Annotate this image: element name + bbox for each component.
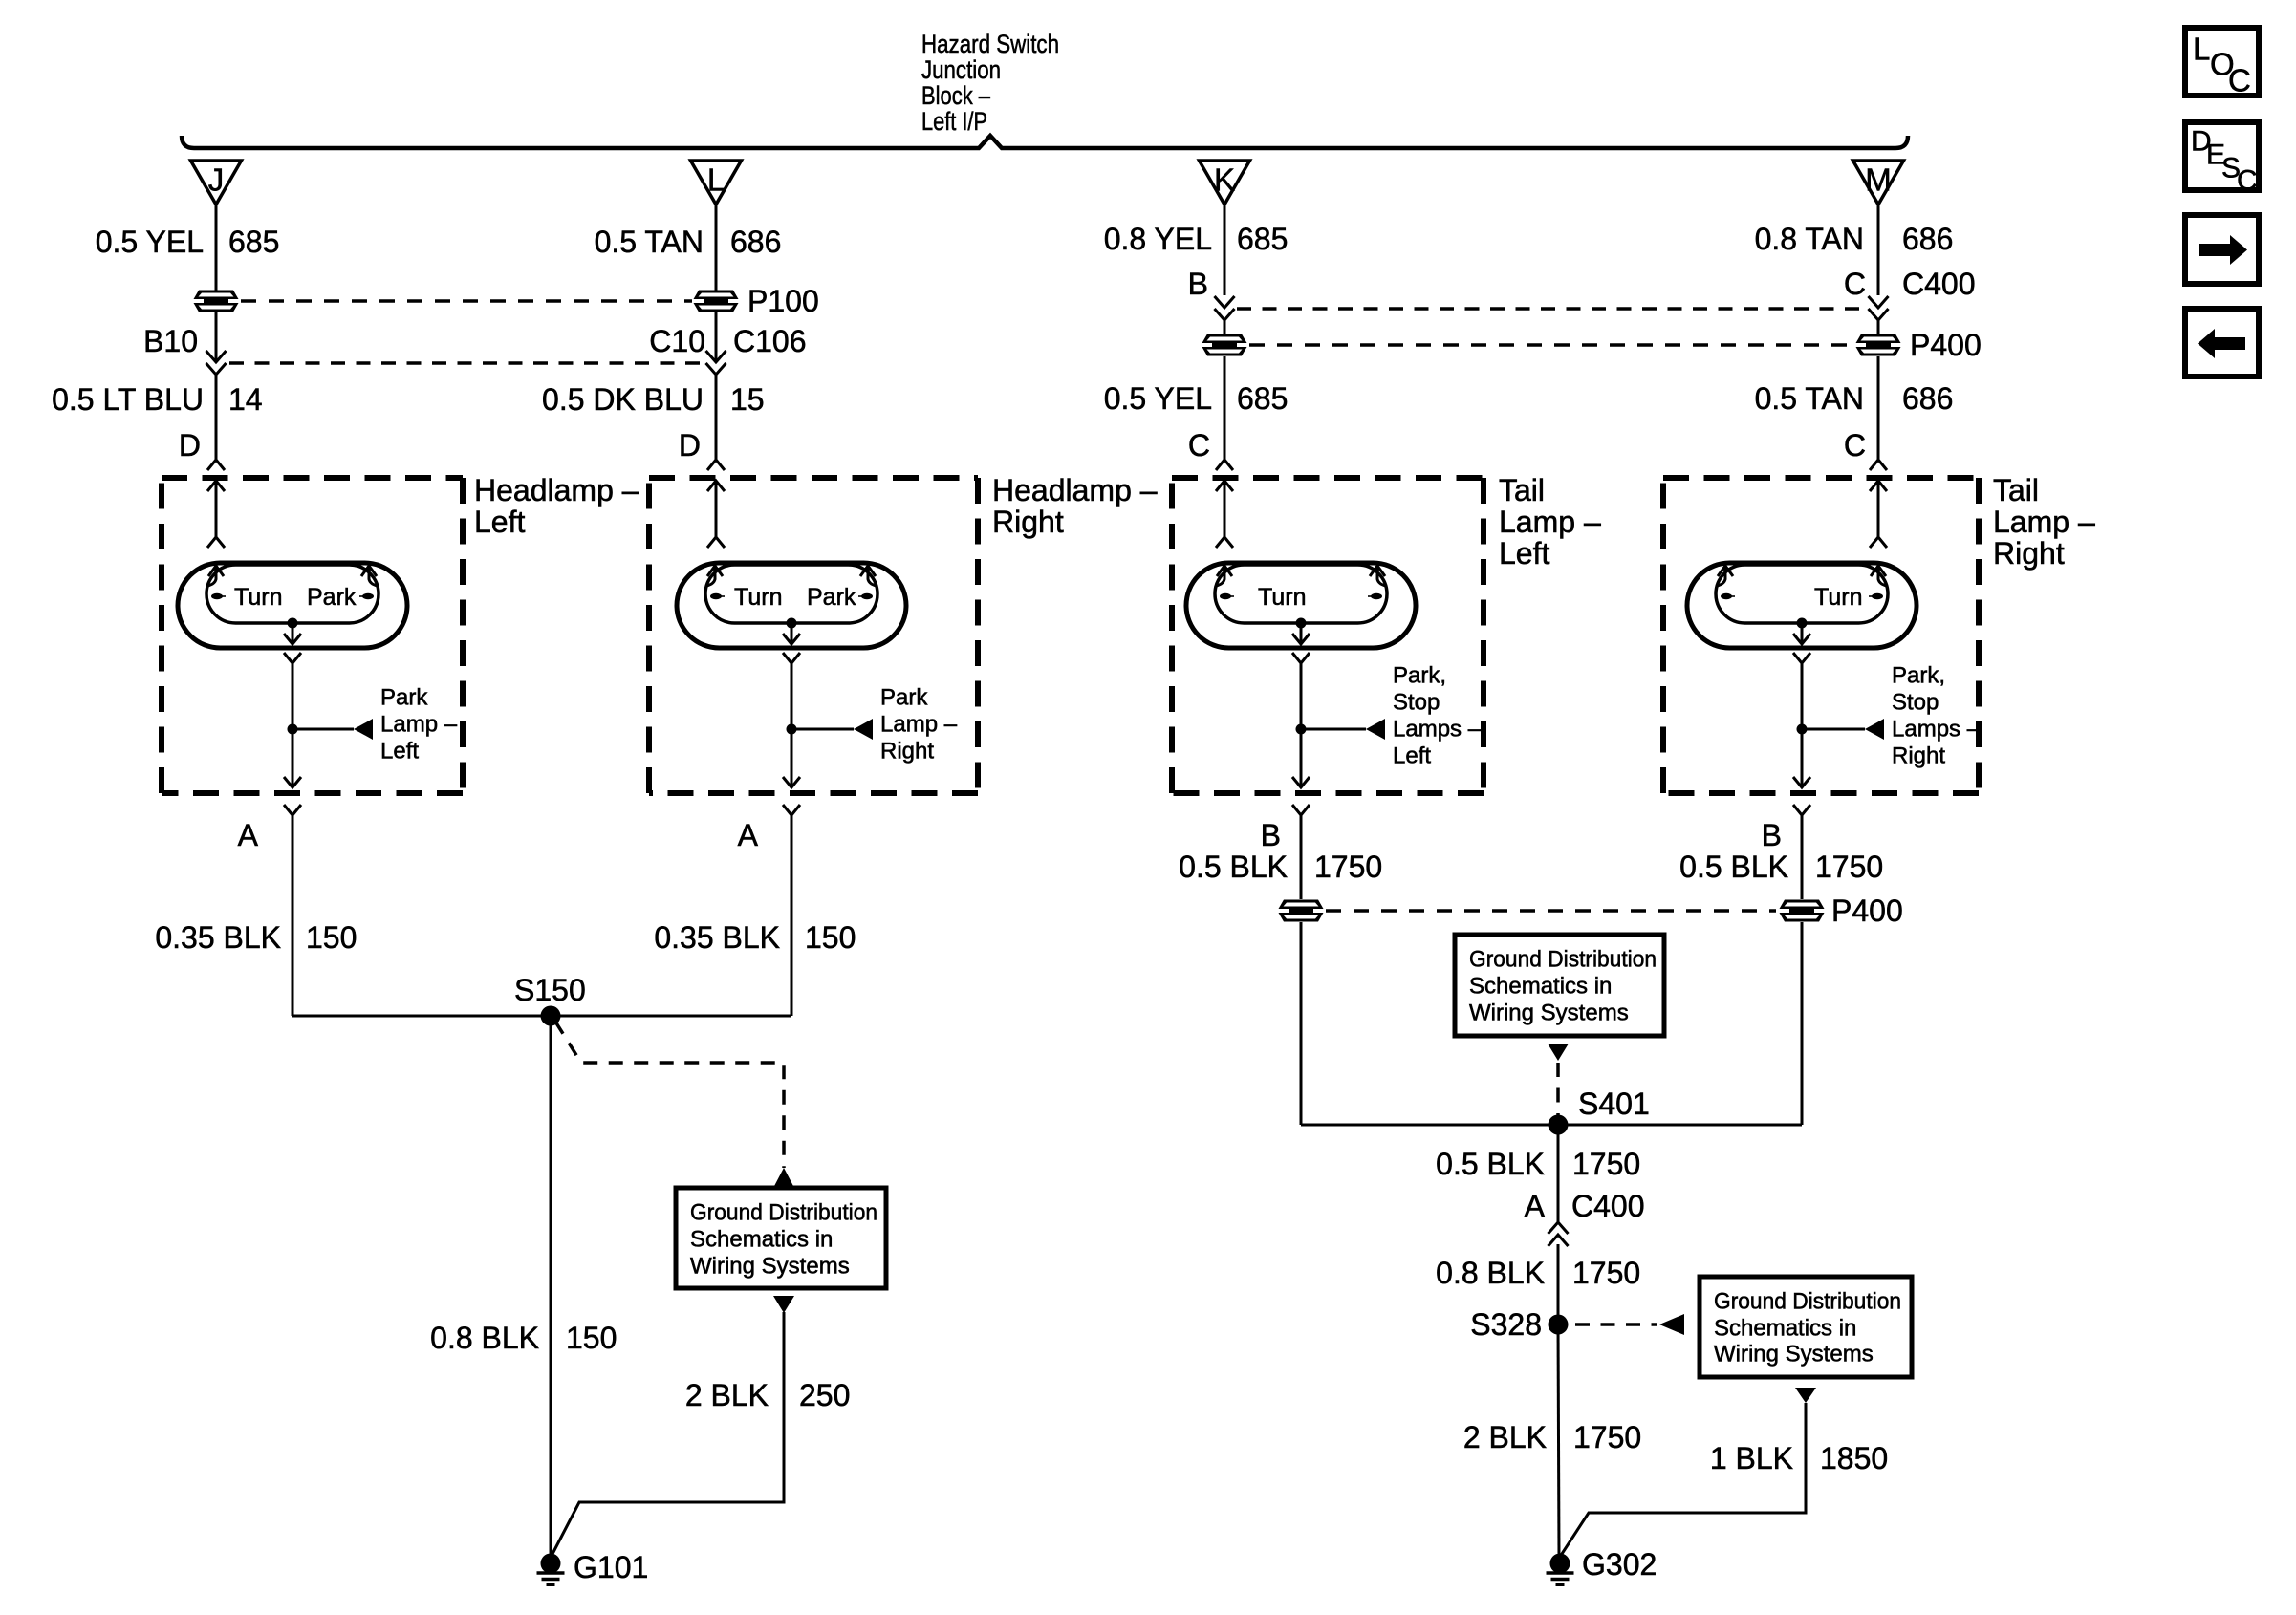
icon DESC xyxy=(2185,122,2259,190)
bulb tail lamp left exit arrow xyxy=(1300,623,1303,644)
junction block terminal L xyxy=(691,161,742,205)
connector C100 L-side xyxy=(694,291,739,300)
svg-text:Ground Distribution: Ground Distribution xyxy=(690,1200,877,1226)
park lamp tap wire xyxy=(1802,728,1865,731)
bulb tail lamp right outer shell xyxy=(1687,563,1917,648)
headlamp right box entry arrow xyxy=(707,481,725,491)
wire 1 BLK 1850 xyxy=(1560,1403,1806,1557)
wire K 685 xyxy=(1224,205,1226,295)
svg-text:0.5 LT BLU: 0.5 LT BLU xyxy=(52,382,204,417)
bulb headlamp right exit arrow xyxy=(791,623,793,644)
svg-text:0.8 BLK: 0.8 BLK xyxy=(1436,1256,1545,1290)
svg-text:C400: C400 xyxy=(1902,267,1976,301)
svg-text:686: 686 xyxy=(1902,381,1953,416)
in-line connector C400 K-side xyxy=(1215,296,1235,308)
svg-text:S150: S150 xyxy=(514,973,586,1007)
tail lamp right box entry fork xyxy=(1870,537,1887,548)
icon arrow right xyxy=(2185,215,2259,284)
headlamp left box exit arrow xyxy=(284,777,301,787)
wire to park lamp tap xyxy=(1300,663,1303,729)
park lamp tap junction xyxy=(1797,724,1808,735)
park lamp tap junction xyxy=(787,724,797,735)
bulb headlamp right outer shell xyxy=(677,563,906,648)
bulb tail lamp right exit arrow xyxy=(1801,623,1804,644)
svg-text:C: C xyxy=(2237,165,2258,197)
splice S150 xyxy=(541,1006,561,1026)
wire to park lamp tap xyxy=(292,663,294,729)
headlamp right box entry fork xyxy=(707,537,725,548)
svg-text:Headlamp –: Headlamp – xyxy=(992,473,1158,507)
park lamp tap arrow xyxy=(1865,719,1884,740)
svg-text:Turn: Turn xyxy=(734,584,782,611)
bulb headlamp right left filament xyxy=(707,566,723,576)
svg-text:Park,: Park, xyxy=(1892,663,1945,689)
svg-text:B: B xyxy=(1762,818,1782,852)
bulb headlamp left common junction xyxy=(288,618,298,629)
in-line connector C106 J-side xyxy=(215,312,218,362)
svg-text:Left: Left xyxy=(380,739,419,764)
svg-text:150: 150 xyxy=(805,920,856,955)
svg-text:P400: P400 xyxy=(1831,894,1903,928)
svg-text:0.5 YEL: 0.5 YEL xyxy=(1104,381,1212,416)
svg-text:0.8 BLK: 0.8 BLK xyxy=(430,1321,539,1355)
headlamp right box exit arrow xyxy=(783,777,800,787)
svg-text:Schematics in: Schematics in xyxy=(1469,974,1612,1000)
svg-text:14: 14 xyxy=(228,382,263,417)
svg-text:250: 250 xyxy=(799,1378,850,1412)
bulb tail lamp right left filament xyxy=(1718,566,1733,576)
svg-text:1750: 1750 xyxy=(1572,1147,1640,1181)
tail lamp left box entry fork xyxy=(1216,537,1233,548)
junction block brace xyxy=(182,136,1908,148)
svg-text:0.5 TAN: 0.5 TAN xyxy=(595,225,704,259)
svg-text:Ground Distribution: Ground Distribution xyxy=(1714,1289,1901,1315)
svg-text:0.5 DK BLU: 0.5 DK BLU xyxy=(542,382,704,417)
svg-text:Lamp –: Lamp – xyxy=(380,712,458,738)
dashed link C106 xyxy=(229,361,702,365)
wire S401 to C400 xyxy=(1557,1125,1560,1222)
svg-text:Headlamp –: Headlamp – xyxy=(474,473,639,507)
svg-text:J: J xyxy=(208,162,225,198)
tail lamp left box exit fork pin B xyxy=(1292,805,1310,815)
connector P400 tail-right xyxy=(1780,900,1825,910)
reference arrow down box3 xyxy=(1795,1388,1816,1403)
wire 15 DK BLU xyxy=(715,375,718,460)
bulb tail lamp right right filament xyxy=(1871,566,1886,576)
svg-text:M: M xyxy=(1865,162,1892,198)
bulb headlamp left exit arrow xyxy=(292,623,294,644)
tail lamp left box exit wire xyxy=(1300,729,1303,787)
headlamp left box entry arrow xyxy=(207,481,225,491)
svg-text:Turn: Turn xyxy=(1258,584,1306,611)
svg-text:C: C xyxy=(1188,428,1210,463)
headlamp left box exit wire xyxy=(292,729,294,787)
connector C100 J-side xyxy=(194,291,239,300)
svg-text:P100: P100 xyxy=(747,284,819,318)
headlamp left box enclosure xyxy=(162,475,463,481)
ground distribution box 1 xyxy=(676,1188,886,1288)
svg-text:Schematics in: Schematics in xyxy=(690,1227,833,1253)
ground distribution box 3 xyxy=(1700,1277,1912,1377)
connector P400 M-side upper xyxy=(1856,334,1901,344)
connector P400 tail-left xyxy=(1279,900,1324,910)
bulb tail lamp right exit fork xyxy=(1793,653,1810,663)
bulb tail lamp left right filament xyxy=(1370,566,1385,576)
svg-text:685: 685 xyxy=(1237,381,1288,416)
svg-text:B: B xyxy=(1188,267,1208,301)
wire K to P400 xyxy=(1224,320,1226,334)
svg-text:Wiring Systems: Wiring Systems xyxy=(1714,1342,1874,1367)
park lamp tap junction xyxy=(1296,724,1307,735)
bulb tail lamp left common junction xyxy=(1296,618,1307,629)
svg-text:Park: Park xyxy=(307,584,357,611)
svg-text:0.5 TAN: 0.5 TAN xyxy=(1755,381,1864,416)
park lamp tap junction xyxy=(288,724,298,735)
svg-text:Turn: Turn xyxy=(234,584,282,611)
icon arrow left xyxy=(2185,309,2259,377)
svg-text:2 BLK: 2 BLK xyxy=(685,1378,769,1412)
svg-text:C10: C10 xyxy=(649,324,705,358)
dashed reference from S150 xyxy=(555,1022,784,1168)
svg-text:Park: Park xyxy=(880,685,928,711)
splice bus S401 xyxy=(1301,1124,1802,1127)
svg-text:S401: S401 xyxy=(1578,1087,1650,1121)
tail lamp left box entry arrow xyxy=(1216,481,1233,491)
svg-text:Tail: Tail xyxy=(1993,473,2039,507)
tail lamp left box enclosure xyxy=(1172,475,1484,481)
svg-text:Schematics in: Schematics in xyxy=(1714,1316,1856,1342)
wire J 685 xyxy=(215,205,218,291)
dashed link P400 lower xyxy=(1326,909,1776,913)
svg-text:P400: P400 xyxy=(1910,328,1982,362)
svg-text:Wiring Systems: Wiring Systems xyxy=(1469,1001,1629,1026)
svg-text:Lamp –: Lamp – xyxy=(1499,505,1601,539)
svg-text:Left: Left xyxy=(1393,743,1431,769)
svg-text:Stop: Stop xyxy=(1892,690,1939,716)
headlamp right box enclosure xyxy=(649,475,978,481)
fork D headlamp left xyxy=(207,460,225,470)
svg-text:2 BLK: 2 BLK xyxy=(1463,1420,1547,1454)
wire tail-left 1750 upper xyxy=(1300,826,1303,899)
bulb tail lamp right common junction xyxy=(1797,618,1808,629)
park lamp tap arrow xyxy=(1366,719,1385,740)
svg-text:1 BLK: 1 BLK xyxy=(1710,1441,1793,1475)
bulb tail lamp left left filament xyxy=(1217,566,1232,576)
svg-text:Lamps –: Lamps – xyxy=(1892,717,1981,743)
dashed link C400 upper xyxy=(1237,307,1864,311)
svg-text:S328: S328 xyxy=(1470,1307,1542,1342)
svg-text:Wiring Systems: Wiring Systems xyxy=(690,1254,850,1280)
dashed link C100 xyxy=(241,299,692,303)
park lamp tap wire xyxy=(1301,728,1366,731)
svg-text:Lamp –: Lamp – xyxy=(880,712,958,738)
reference arrow down box1 xyxy=(773,1296,794,1313)
headlamp right box exit wire xyxy=(791,729,793,787)
bulb headlamp left inner shell xyxy=(206,565,379,623)
svg-text:685: 685 xyxy=(228,225,279,259)
svg-text:B10: B10 xyxy=(143,324,198,358)
wire L 686 xyxy=(715,205,718,291)
ground G101 xyxy=(541,1554,561,1574)
svg-text:Turn: Turn xyxy=(1814,584,1862,611)
ground G302 xyxy=(1550,1554,1570,1574)
svg-text:Tail: Tail xyxy=(1499,473,1545,507)
svg-text:150: 150 xyxy=(306,920,357,955)
dashed link P400 upper xyxy=(1249,343,1852,347)
park lamp tap wire xyxy=(292,728,354,731)
wire 2 BLK 250 xyxy=(552,1312,784,1556)
svg-text:1750: 1750 xyxy=(1572,1256,1640,1290)
reference arrow left xyxy=(1659,1314,1684,1335)
bulb headlamp right common junction xyxy=(787,618,797,629)
svg-text:Block –: Block – xyxy=(921,81,990,110)
svg-text:A: A xyxy=(238,818,259,852)
svg-text:Stop: Stop xyxy=(1393,690,1440,716)
in-line connector C400 M-side xyxy=(1869,296,1889,308)
svg-text:C: C xyxy=(1844,428,1866,463)
svg-text:686: 686 xyxy=(1902,222,1953,256)
tail lamp right box exit fork pin B xyxy=(1793,805,1810,815)
bulb tail lamp left exit fork xyxy=(1292,653,1310,663)
svg-text:0.5 BLK: 0.5 BLK xyxy=(1679,850,1788,884)
svg-text:Park,: Park, xyxy=(1393,663,1446,689)
svg-text:B: B xyxy=(1261,818,1281,852)
svg-text:Lamp –: Lamp – xyxy=(1993,505,2095,539)
wire tail-right 1750 upper xyxy=(1801,826,1804,899)
junction block terminal K xyxy=(1200,161,1250,205)
svg-text:L: L xyxy=(707,162,725,198)
bulb headlamp left outer shell xyxy=(178,563,407,648)
dashed reference to S401 xyxy=(1556,1063,1560,1118)
bulb tail lamp left inner shell xyxy=(1215,565,1387,623)
svg-text:D: D xyxy=(179,428,201,463)
bulb tail lamp right inner shell xyxy=(1716,565,1888,623)
tail lamp right box entry arrow xyxy=(1870,481,1887,491)
wire 14 LT BLU xyxy=(215,375,218,460)
svg-text:G101: G101 xyxy=(574,1550,648,1584)
junction block terminal M xyxy=(1853,161,1904,205)
tail lamp right box exit wire xyxy=(1801,729,1804,787)
svg-text:1750: 1750 xyxy=(1815,850,1883,884)
icon LOC xyxy=(2185,28,2259,96)
svg-text:A: A xyxy=(1525,1189,1546,1223)
svg-text:0.35 BLK: 0.35 BLK xyxy=(155,920,281,955)
svg-text:Hazard Switch: Hazard Switch xyxy=(921,30,1059,58)
bulb headlamp right right filament xyxy=(860,566,876,576)
svg-text:C: C xyxy=(1844,267,1866,301)
reference arrow up xyxy=(773,1168,794,1188)
wire tail-left to S401 xyxy=(1300,922,1303,1125)
wire M to P400 xyxy=(1877,320,1880,334)
wire headlamp-left 150 xyxy=(292,826,294,1016)
bulb headlamp left left filament xyxy=(208,566,224,576)
fork D headlamp right xyxy=(707,460,725,470)
svg-text:0.5 BLK: 0.5 BLK xyxy=(1179,850,1288,884)
wire M 686 xyxy=(1877,205,1880,295)
fork C tail right xyxy=(1870,460,1887,470)
svg-text:0.8 TAN: 0.8 TAN xyxy=(1755,222,1864,256)
headlamp left box entry fork xyxy=(207,537,225,548)
svg-text:Right: Right xyxy=(992,505,1064,539)
wire to park lamp tap xyxy=(1801,663,1804,729)
tail lamp right box enclosure xyxy=(1663,475,1979,481)
svg-text:C106: C106 xyxy=(733,324,807,358)
svg-text:C: C xyxy=(2228,63,2251,98)
wire 2 BLK 1750 xyxy=(1558,1324,1559,1555)
svg-text:0.5 YEL: 0.5 YEL xyxy=(96,225,204,259)
bulb headlamp left exit fork xyxy=(284,653,301,663)
park lamp tap arrow xyxy=(854,719,873,740)
park lamp tap arrow xyxy=(354,719,373,740)
in-line connector C400 lower xyxy=(1549,1222,1569,1234)
svg-text:15: 15 xyxy=(730,382,765,417)
headlamp left box exit fork pin A xyxy=(284,805,301,815)
dashed reference from S328 xyxy=(1575,1323,1657,1326)
wire 686 lower xyxy=(1877,356,1880,460)
svg-text:K: K xyxy=(1214,162,1235,198)
svg-text:Junction: Junction xyxy=(921,55,1001,84)
wire C400 to S328 xyxy=(1557,1244,1560,1324)
reference arrow down box2 xyxy=(1548,1044,1569,1061)
svg-text:Ground Distribution: Ground Distribution xyxy=(1469,947,1657,973)
svg-text:Left I/P: Left I/P xyxy=(921,107,987,136)
svg-text:1850: 1850 xyxy=(1820,1441,1888,1475)
svg-text:150: 150 xyxy=(566,1321,617,1355)
headlamp right box exit fork pin A xyxy=(783,805,800,815)
svg-text:1750: 1750 xyxy=(1573,1420,1641,1454)
svg-text:Left: Left xyxy=(1499,536,1549,571)
svg-text:Lamps –: Lamps – xyxy=(1393,717,1482,743)
svg-text:Right: Right xyxy=(1993,536,2065,571)
svg-text:686: 686 xyxy=(730,225,781,259)
svg-text:D: D xyxy=(679,428,701,463)
wire 0.8 BLK 150 xyxy=(550,1016,552,1555)
svg-text:1750: 1750 xyxy=(1314,850,1382,884)
svg-text:685: 685 xyxy=(1237,222,1288,256)
svg-text:G302: G302 xyxy=(1582,1547,1657,1582)
connector P400 K-side upper xyxy=(1202,334,1247,344)
wire to park lamp tap xyxy=(791,663,793,729)
fork C tail left xyxy=(1216,460,1233,470)
svg-text:C400: C400 xyxy=(1571,1189,1645,1223)
splice S401 xyxy=(1549,1115,1569,1135)
in-line connector C106 L-side xyxy=(715,312,718,362)
park lamp tap wire xyxy=(791,728,854,731)
svg-text:A: A xyxy=(738,818,759,852)
svg-text:0.35 BLK: 0.35 BLK xyxy=(654,920,780,955)
wire 685 lower xyxy=(1224,356,1226,460)
bulb headlamp left right filament xyxy=(361,566,377,576)
bulb headlamp right exit fork xyxy=(783,653,800,663)
svg-text:Right: Right xyxy=(1892,743,1945,769)
svg-text:Park: Park xyxy=(807,584,856,611)
tail lamp right box exit arrow xyxy=(1793,777,1810,787)
svg-text:0.5 BLK: 0.5 BLK xyxy=(1436,1147,1545,1181)
svg-text:Park: Park xyxy=(380,685,428,711)
svg-text:L: L xyxy=(2193,32,2210,67)
svg-text:0.8 YEL: 0.8 YEL xyxy=(1104,222,1212,256)
wire tail-right to S401 xyxy=(1801,922,1804,1125)
junction block terminal J xyxy=(191,161,242,205)
svg-text:Left: Left xyxy=(474,505,525,539)
tail lamp left box exit arrow xyxy=(1292,777,1310,787)
wire headlamp-right 150 xyxy=(791,826,793,1016)
splice bus S150 xyxy=(292,1015,791,1018)
bulb headlamp right inner shell xyxy=(705,565,877,623)
svg-text:Right: Right xyxy=(880,739,934,764)
splice S328 xyxy=(1549,1315,1569,1335)
bulb tail lamp left outer shell xyxy=(1186,563,1416,648)
ground distribution box 2 xyxy=(1455,935,1664,1036)
